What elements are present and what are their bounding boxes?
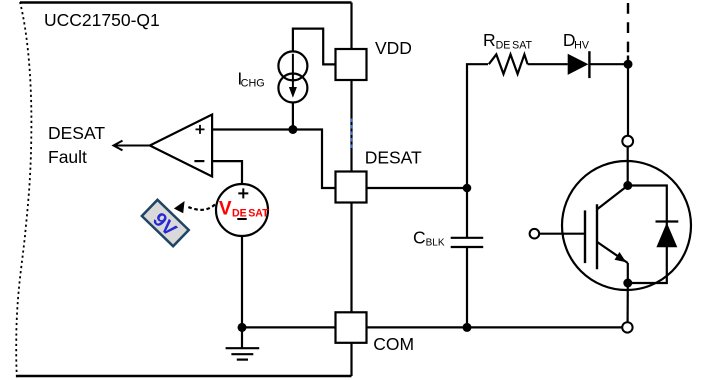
svg-text:VDD: VDD xyxy=(375,38,412,58)
svg-text:ICHG: ICHG xyxy=(237,68,264,89)
svg-text:Fault: Fault xyxy=(48,147,87,167)
svg-text:COM: COM xyxy=(373,334,414,354)
svg-text:RDESAT: RDESAT xyxy=(483,30,533,51)
svg-text:UCC21750-Q1: UCC21750-Q1 xyxy=(44,10,160,30)
svg-text:DESAT: DESAT xyxy=(48,123,105,143)
svg-text:DHV: DHV xyxy=(563,30,590,51)
svg-text:CBLK: CBLK xyxy=(413,227,445,248)
svg-text:DESAT: DESAT xyxy=(365,148,422,168)
